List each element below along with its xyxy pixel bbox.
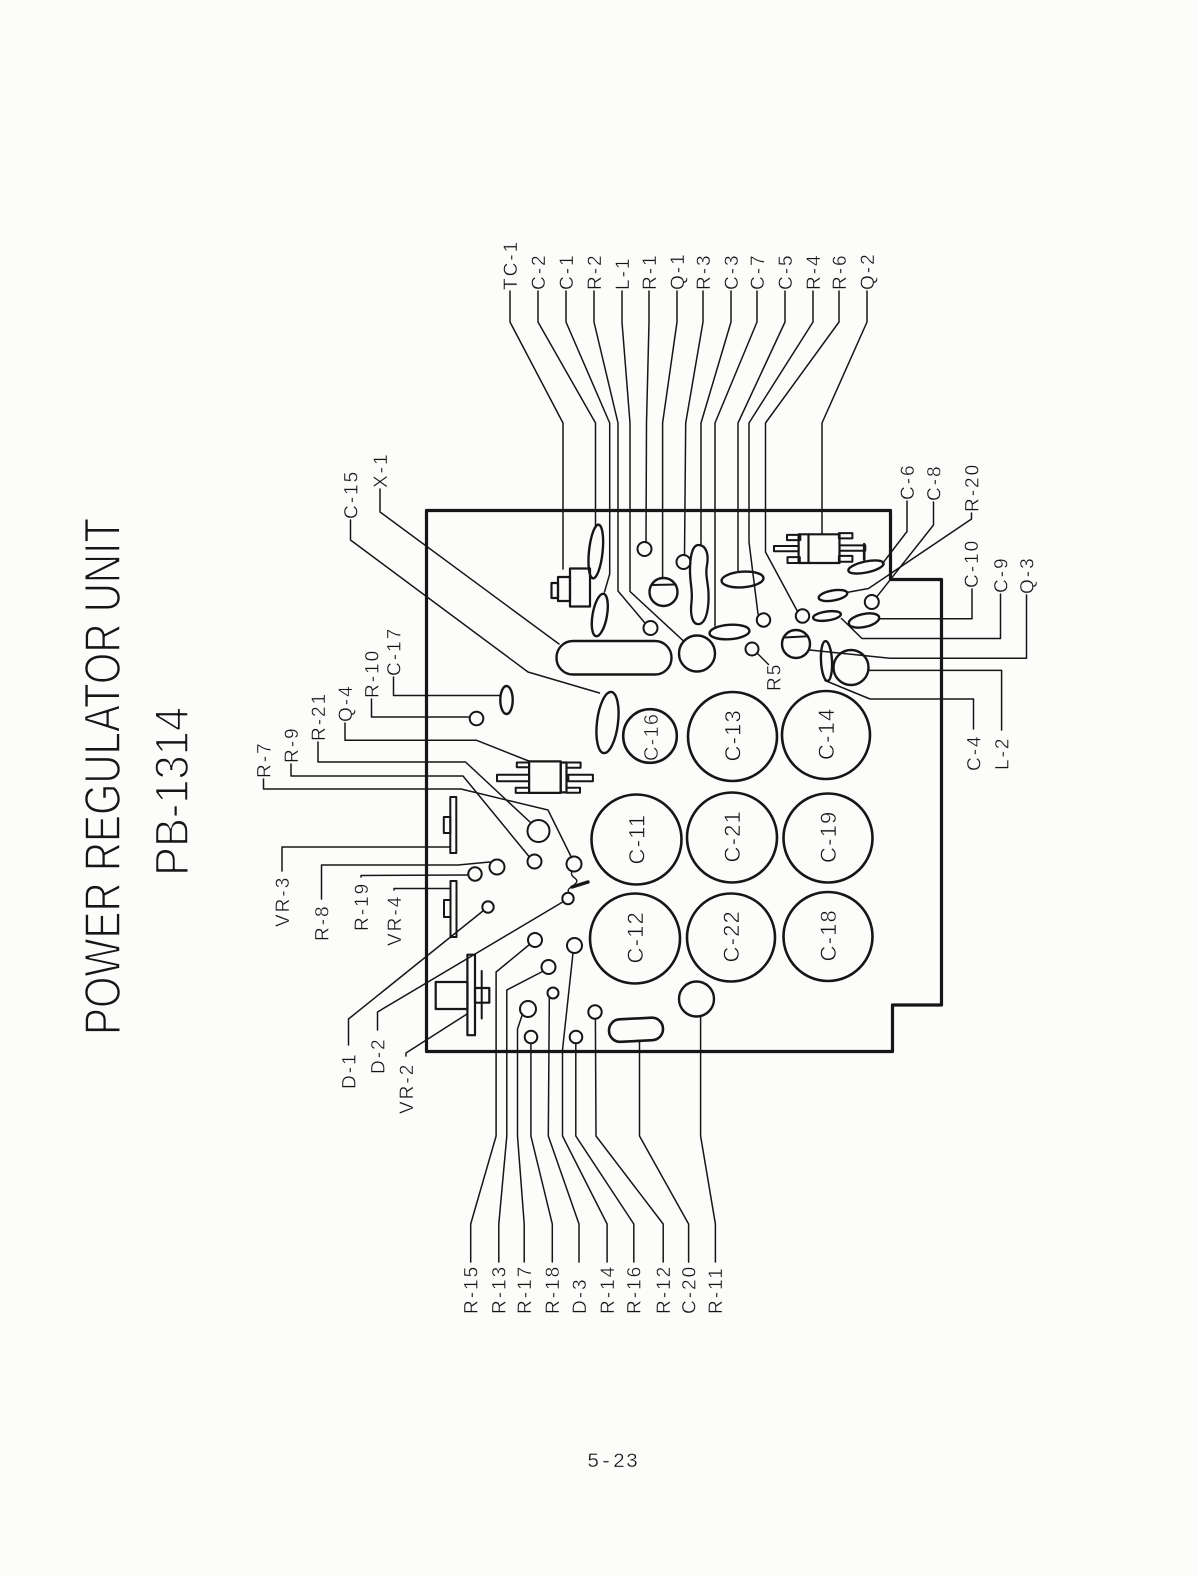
wire C-15 leader [351, 520, 600, 693]
svg-text:C-5: C-5 [776, 253, 797, 290]
wire R-8 leader [322, 862, 490, 899]
svg-text:C-17: C-17 [384, 627, 405, 676]
wire D-2 leader [378, 902, 564, 1031]
diode D-3 pad [548, 988, 559, 999]
svg-text:C-1: C-1 [557, 253, 578, 290]
resistor R-15 pad [528, 933, 542, 947]
wire C-8 leader [877, 502, 934, 597]
svg-text:5-23: 5-23 [587, 1451, 639, 1474]
svg-text:R-3: R-3 [694, 253, 715, 290]
wire R-17 leader [518, 1014, 525, 1262]
wire R-18 leader [531, 1043, 552, 1262]
resistor R-17 pad [520, 1001, 536, 1017]
svg-text:C-4: C-4 [964, 734, 985, 771]
svg-text:C-15: C-15 [341, 470, 362, 519]
capacitor C-10 (pointed ellipse) [847, 611, 880, 630]
svg-text:R-20: R-20 [962, 463, 983, 512]
capacitor C-8 pad [865, 595, 879, 609]
svg-text:D-1: D-1 [339, 1052, 360, 1089]
svg-text:L-1: L-1 [613, 257, 634, 290]
svg-text:C-22: C-22 [719, 910, 744, 963]
wire TC-1 leader [510, 291, 563, 569]
resistor R-11 (large pad) [679, 982, 714, 1017]
svg-text:C-21: C-21 [720, 810, 745, 863]
resistor R-20 (slanted ellipse) [818, 588, 848, 603]
resistor R-10 pad [470, 712, 484, 726]
wire R-19 leader [361, 875, 468, 877]
svg-text:TC-1: TC-1 [501, 240, 522, 290]
capacitor C-19 [784, 794, 873, 883]
resistor R-6 pad [796, 609, 809, 622]
resistor R-18 pad [525, 1031, 538, 1044]
capacitor C-21 [687, 793, 777, 883]
svg-text:R-16: R-16 [625, 1265, 646, 1314]
resistor R-7 pad with jumper squiggle [567, 857, 582, 872]
capacitor C-3 (tall blob) [690, 545, 709, 624]
wire R-7 leader [264, 779, 572, 858]
diode D-1 pad [482, 901, 493, 912]
svg-text:VR-2: VR-2 [397, 1063, 418, 1114]
wire Q-2 leader [822, 291, 867, 534]
svg-text:R-10: R-10 [362, 649, 383, 698]
svg-text:X-1: X-1 [371, 452, 392, 488]
resistor R-19 pad [468, 867, 481, 880]
wire L-2 leader [869, 670, 1002, 730]
svg-text:C-11: C-11 [625, 814, 650, 865]
capacitor C-15 (side view ellipse) [593, 691, 621, 755]
resistor R-21 pad [528, 820, 550, 842]
resistor R-4 pad [757, 613, 770, 626]
wire L-1 leader [622, 291, 684, 641]
transistor Q-3 (top view with tab) [782, 630, 810, 658]
svg-text:C-20: C-20 [679, 1265, 700, 1314]
resistor R-1 pad [638, 542, 652, 556]
component X-1 (long pill) [557, 641, 672, 675]
thermal cutout TC-1 body [552, 569, 591, 607]
capacitor C-4 (top view circle) [834, 650, 869, 685]
svg-text:R-6: R-6 [830, 253, 851, 290]
wire R-16 leader [576, 1043, 634, 1262]
capacitor C-17 (lens) [500, 686, 512, 714]
transistor Q-2 package [774, 533, 865, 563]
svg-text:R-21: R-21 [309, 692, 330, 741]
resistor R-9 pad [528, 855, 542, 869]
inductor L-2 (vertical thin ellipse) [820, 641, 833, 682]
svg-text:R-2: R-2 [585, 253, 606, 290]
svg-text:C-6: C-6 [898, 463, 919, 500]
svg-text:Q-4: Q-4 [336, 684, 357, 722]
svg-text:C-8: C-8 [924, 464, 945, 501]
svg-text:R-8: R-8 [312, 904, 333, 941]
svg-text:Q-2: Q-2 [858, 252, 879, 290]
resistor R5 pad [746, 643, 759, 656]
wire R-20 leader [847, 513, 972, 593]
wire C-20 leader [640, 1041, 689, 1262]
svg-text:R-18: R-18 [543, 1265, 564, 1314]
wire C-4 leader [825, 681, 974, 730]
wire D-3 leader [548, 999, 579, 1263]
svg-text:R-9: R-9 [282, 726, 303, 763]
transistor Q-4 package [497, 761, 593, 793]
resistor R-12 pad [588, 1005, 601, 1018]
svg-text:C-2: C-2 [529, 253, 550, 290]
potentiometer VR-2 (body with plate) [436, 955, 490, 1035]
diode D-2 pad [562, 893, 573, 904]
svg-text:R-7: R-7 [254, 741, 275, 778]
wire C-7 leader [715, 291, 757, 626]
capacitor C-2 (side view ellipse) [586, 524, 605, 579]
svg-text:VR-4: VR-4 [385, 895, 406, 946]
svg-text:C-14: C-14 [814, 708, 839, 761]
resistor R-14 pad [567, 938, 582, 953]
capacitor C-6 (slanted ellipse) [847, 558, 885, 576]
svg-text:C-10: C-10 [962, 539, 983, 588]
svg-text:R-14: R-14 [598, 1265, 619, 1314]
capacitor C-16 [623, 709, 677, 763]
svg-text:R-12: R-12 [654, 1265, 675, 1314]
svg-text:R-19: R-19 [352, 882, 373, 931]
wire Q-4 leader [345, 723, 530, 762]
svg-text:C-19: C-19 [816, 811, 841, 864]
wire C-2 leader [538, 291, 596, 526]
capacitor C-18 [784, 892, 873, 981]
svg-text:PB-1314: PB-1314 [145, 707, 198, 876]
svg-text:Q-1: Q-1 [668, 252, 689, 290]
wire R-6 leader [766, 291, 840, 611]
wire VR-4 leader [394, 889, 450, 891]
capacitor C-13 [688, 692, 777, 781]
wire R-21 leader [318, 742, 531, 823]
wire C-1 leader [566, 291, 610, 592]
svg-text:D-3: D-3 [570, 1277, 591, 1314]
wire VR-3 leader [282, 847, 450, 871]
resistor R-2 pad [644, 621, 658, 635]
wire C-17 leader [394, 677, 501, 696]
inductor L-1 (top view) [679, 636, 715, 672]
wire R-15 leader [471, 945, 530, 1263]
resistor R-3 pad [677, 555, 691, 569]
wire R-2 leader [594, 291, 645, 623]
wire R-13 leader [499, 972, 543, 1263]
wire VR-2 leader [406, 1014, 467, 1056]
PCB board outline [427, 511, 942, 1052]
capacitor C-22 [687, 894, 775, 982]
wire C-6 leader [883, 501, 908, 564]
capacitor C-20 (pill) [608, 1017, 663, 1042]
wire X-1 leader [380, 489, 559, 644]
resistor R-8 pad [490, 860, 505, 875]
svg-text:L-2: L-2 [992, 737, 1013, 770]
svg-text:VR-3: VR-3 [273, 876, 294, 927]
svg-text:C-7: C-7 [748, 253, 769, 290]
svg-text:R-11: R-11 [706, 1266, 727, 1314]
wire R-1 leader [646, 291, 649, 543]
svg-text:R-17: R-17 [515, 1265, 536, 1314]
capacitor C-1 (side view ellipse) [589, 593, 611, 638]
svg-text:C-13: C-13 [721, 709, 746, 762]
resistor R-16 pad [570, 1031, 583, 1044]
capacitor C-7 (horizontal ellipse) [709, 623, 750, 640]
potentiometer VR-4 (edge connector symbol) [444, 881, 457, 937]
capacitor C-12 [590, 894, 680, 984]
svg-text:R-15: R-15 [462, 1265, 483, 1314]
transistor Q-1 (top view with tab) [650, 578, 678, 606]
wire C-5 leader [738, 291, 785, 572]
wire R-9 leader [291, 764, 529, 857]
svg-text:C-3: C-3 [722, 253, 743, 290]
svg-text:C-9: C-9 [991, 556, 1012, 593]
svg-text:R-13: R-13 [490, 1265, 511, 1314]
label R5 with tick [758, 654, 769, 665]
wire R-4 leader [749, 291, 813, 614]
wire R-11 leader [701, 1016, 716, 1262]
svg-text:C-16: C-16 [641, 713, 663, 761]
capacitor C-14 [782, 691, 870, 779]
capacitor C-9 (slanted ellipse) [813, 610, 842, 623]
wire C-3 leader [701, 291, 731, 546]
svg-text:Q-3: Q-3 [1017, 556, 1038, 594]
wire R-12 leader [595, 1019, 663, 1262]
svg-text:D-2: D-2 [368, 1037, 389, 1074]
wire D-1 leader [349, 911, 484, 1046]
svg-text:R-1: R-1 [640, 253, 661, 290]
capacitor C-11 [592, 795, 682, 885]
capacitor C-5 (horizontal ellipse) [721, 570, 764, 588]
wire C-10 leader [879, 589, 973, 619]
wire R-14 leader [563, 953, 608, 1262]
resistor R-13 pad [542, 960, 556, 974]
wire C-9 leader [842, 594, 1001, 639]
wire R-10 leader [372, 699, 470, 717]
svg-text:C-18: C-18 [816, 909, 841, 962]
potentiometer VR-3 (edge connector symbol) [444, 797, 457, 853]
wire Q-3 leader [810, 595, 1027, 658]
svg-text:POWER REGULATOR UNIT: POWER REGULATOR UNIT [74, 518, 131, 1035]
wire R-3 leader [685, 291, 704, 556]
wire Q-1 leader [663, 291, 677, 579]
svg-text:R5: R5 [764, 663, 785, 691]
svg-text:C-12: C-12 [623, 911, 648, 964]
svg-text:R-4: R-4 [804, 253, 825, 290]
